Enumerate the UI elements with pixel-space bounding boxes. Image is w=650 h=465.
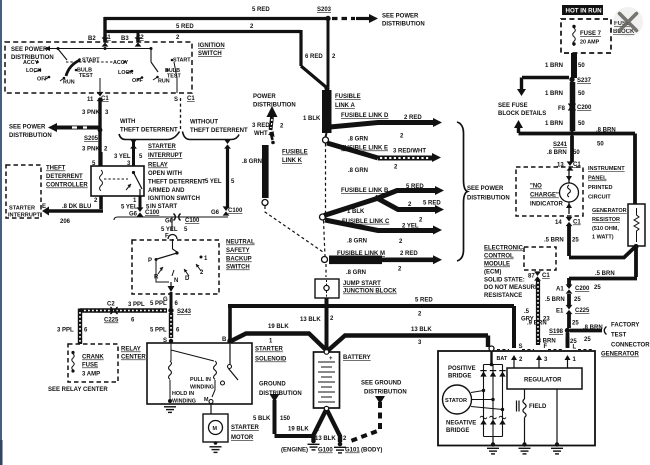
wire .8 BRN to L [566,333,570,347]
svg-text:CENTER: CENTER [121,355,146,361]
svg-text:THEFT DETERRENT: THEFT DETERRENT [148,180,206,186]
svg-text:(ECM): (ECM) [484,270,501,276]
svg-text:.5 BRN: .5 BRN [545,297,565,303]
svg-text:SEE FUSE: SEE FUSE [498,103,528,109]
svg-text:S243: S243 [177,309,192,315]
svg-text:TEST: TEST [611,333,627,339]
svg-text:C1: C1 [573,220,581,226]
svg-text:FUSE 7: FUSE 7 [580,31,602,37]
svg-text:"NO: "NO [530,184,542,190]
svg-text:REGULATOR: REGULATOR [524,378,562,384]
svg-text:CIRCUIT: CIRCUIT [588,195,611,201]
wire .5 BRN [567,294,571,306]
svg-text:CRANK: CRANK [82,355,104,361]
svg-text:50: 50 [597,142,604,148]
stator leads [471,391,503,410]
svg-text:3 RED/: 3 RED/ [252,123,272,129]
svg-text:L: L [573,345,577,351]
svg-text:FIELD: FIELD [529,404,547,410]
svg-text:3 RED/WHT: 3 RED/WHT [393,149,426,155]
dashed ground wire [348,402,380,442]
terminal BAT [489,346,494,351]
svg-text:S: S [519,344,523,350]
svg-text:RESISTANCE: RESISTANCE [484,293,522,299]
dashed wire from S C1 [180,98,182,131]
ECM dashed box [524,247,556,270]
wire .8 BRN to factory test connector [570,329,602,333]
svg-text:POSITIVE: POSITIVE [448,366,476,372]
svg-text:25: 25 [594,285,601,291]
svg-text:TEST: TEST [167,74,181,80]
svg-text:3 YEL: 3 YEL [114,154,131,160]
svg-text:G101: G101 [345,448,360,454]
svg-text:C100: C100 [145,210,160,216]
svg-text:STATOR: STATOR [445,398,467,404]
svg-text:14: 14 [555,220,562,226]
generator resistor [628,204,645,246]
svg-text:THEFT: THEFT [46,166,66,172]
svg-text:25: 25 [572,321,579,327]
contact R [158,267,163,274]
wire .9 BRN [567,313,571,328]
svg-text:BLOCK: BLOCK [613,29,635,35]
svg-text:+: + [329,356,333,362]
svg-text:5 BLK: 5 BLK [253,416,271,422]
svg-text:13 BLK: 13 BLK [315,436,336,442]
svg-text:G6: G6 [211,210,220,216]
svg-text:LINK K: LINK K [282,158,303,164]
wire .5 BRN down [567,225,571,256]
svg-text:RELAY: RELAY [121,347,141,353]
contact D [184,269,189,276]
svg-text:50: 50 [573,150,580,156]
positive diodes [480,371,486,377]
left position contacts [36,61,39,64]
wire 3 YEL into relay terminal 3 [132,140,135,166]
node S205 [98,128,103,133]
svg-text:C100: C100 [185,218,200,224]
wire G drop [170,292,173,308]
wire 6 RED drop from S203 [327,19,330,87]
svg-text:DISTRIBUTION: DISTRIBUTION [467,196,510,202]
svg-text:OPEN WITH: OPEN WITH [148,171,182,177]
svg-text:.8 GRN: .8 GRN [346,270,366,276]
wire regulator to field [524,389,526,399]
dashed link bus [324,144,327,278]
wire 13 BLK battery to generator [328,336,488,351]
svg-text:RESISTOR: RESISTOR [592,217,620,223]
svg-text:25: 25 [584,337,591,343]
svg-text:FACTORY: FACTORY [611,323,639,329]
svg-text:.8 DK BLU: .8 DK BLU [62,204,91,210]
wire drop to ignition B3 C2 [137,32,140,43]
svg-text:IGNITION SWITCH: IGNITION SWITCH [148,196,200,202]
svg-text:CHARGE": CHARGE" [530,193,559,199]
brace see power distribution [457,122,468,261]
node S237 [569,77,574,82]
svg-text:PANEL: PANEL [588,176,607,182]
svg-text:DISTRIBUTION: DISTRIBUTION [364,390,407,396]
starter motor [203,414,228,442]
svg-text:13 BLK: 13 BLK [411,327,432,333]
svg-text:1 BLK: 1 BLK [303,116,321,122]
connector F8 C200 [568,104,575,111]
svg-text:F: F [544,344,548,350]
svg-text:M: M [204,397,209,403]
svg-text:1 BRN: 1 BRN [545,91,563,97]
svg-text:1 WATT): 1 WATT) [592,235,614,241]
svg-text:RUN: RUN [63,80,75,86]
svg-text:19 BLK: 19 BLK [288,427,309,433]
svg-text:3 AMP: 3 AMP [82,372,100,378]
svg-text:CONNECTOR: CONNECTOR [611,343,650,349]
wire 1 BRN fuse to S237 [571,53,577,78]
svg-text:STARTER: STARTER [255,347,284,353]
ground generator 1 [491,442,495,446]
svg-text:13 BLK: 13 BLK [300,317,321,323]
wire 5 BLK [275,400,313,436]
svg-text:206: 206 [60,219,71,225]
wire field to ground [524,418,526,445]
switch wiper left [58,49,67,60]
node S243 [168,308,173,313]
starter interrupt relay box [91,166,144,196]
wire 1 BRN S237 to C200 [570,82,576,131]
svg-text:5 RED: 5 RED [423,201,441,207]
svg-text:BAT: BAT [497,356,508,362]
svg-text:2 RED: 2 RED [404,115,422,121]
svg-text:2 RED: 2 RED [400,251,418,257]
svg-text:DISTRIBUTION: DISTRIBUTION [259,391,302,397]
no charge indicator dashed box [516,167,583,216]
svg-text:25: 25 [572,238,579,244]
svg-text:G100: G100 [318,448,333,454]
svg-text:PULL IN: PULL IN [190,377,211,383]
wire rail to ground [492,437,494,445]
svg-text:SEE RELAY CENTER: SEE RELAY CENTER [48,387,108,393]
svg-text:OFF: OFF [37,77,48,83]
svg-text:.8 BRN: .8 BRN [547,150,567,156]
neutral safety backup switch dashed box [132,240,219,294]
svg-text:BRIDGE: BRIDGE [446,428,469,434]
svg-text:3 PNK: 3 PNK [82,147,100,153]
svg-text:SWITCH: SWITCH [198,51,222,57]
switch wiper [175,251,178,254]
svg-text:E1: E1 [556,309,564,315]
svg-text:S203: S203 [317,7,332,13]
connector G6 C100 left [137,207,144,216]
connector C2 [135,37,142,46]
svg-text:ACCY: ACCY [113,60,129,66]
svg-text:IGNITION: IGNITION [198,43,225,49]
mechanical link dashed [66,61,113,63]
svg-text:WINDING: WINDING [190,385,214,391]
wire 5 RED corner into B [228,306,232,340]
crank fuse symbol [71,351,74,354]
connector C2 C225 [110,307,117,314]
svg-text:ACCY: ACCY [23,60,39,66]
svg-text:THEFT DETERRENT: THEFT DETERRENT [120,128,178,134]
svg-text:.5 BRN: .5 BRN [544,238,564,244]
wire 13 BLK jump start to battery [325,298,329,350]
battery top terminal [324,350,329,355]
svg-text:PRINTED: PRINTED [588,185,613,191]
svg-text:23: 23 [543,317,550,323]
wire .5 BRN return [569,246,637,279]
node S241 [569,131,574,136]
wire to 11 C1 exit [100,62,177,93]
svg-text:SEE POWER: SEE POWER [382,14,419,20]
wire M to motor [210,403,212,414]
dashed terminal strip [497,349,592,351]
svg-text:SWITCH: SWITCH [226,265,250,271]
wire dashed to see-power arrow [332,17,355,20]
wire 19 BLK solenoid to battery [231,334,326,351]
svg-text:SEE POWER: SEE POWER [467,186,504,192]
wire 13 BLK battery to G101 [327,410,340,442]
svg-text:GENERATOR: GENERATOR [601,352,639,358]
svg-text:87: 87 [528,274,535,280]
svg-text:TEST: TEST [79,73,93,79]
wire drop to F [171,217,173,231]
node S203 [325,16,330,21]
field winding [517,401,520,412]
svg-text:.5: .5 [524,309,530,315]
svg-text:E: E [42,204,46,210]
ground G100 [311,439,316,444]
svg-text:LINK A: LINK A [335,103,355,109]
svg-text:CONTROL: CONTROL [484,254,514,260]
up arrow to brn line [514,120,523,128]
svg-text:C200: C200 [575,286,590,292]
svg-text:NEGATIVE: NEGATIVE [446,421,476,427]
svg-text:5 YEL: 5 YEL [161,227,178,233]
starter motor ground [214,441,218,445]
svg-text:STARTER: STARTER [148,144,177,150]
relay terminal 5 stub [99,152,102,166]
svg-text:.8 GRN: .8 GRN [347,239,367,245]
svg-text:1 BLK: 1 BLK [347,209,365,215]
svg-text:20 AMP: 20 AMP [580,40,600,46]
svg-text:C100: C100 [228,208,243,214]
svg-text:GRY: GRY [521,317,534,323]
wire 5 RED second feed [104,30,327,88]
svg-text:A1: A1 [556,287,564,293]
svg-text:POWER: POWER [253,94,276,100]
svg-text:FUSIBLE LINK D: FUSIBLE LINK D [341,113,389,119]
wire 3 PPL striped vertical [78,309,82,345]
svg-text:DISTRIBUTION: DISTRIBUTION [382,22,425,28]
svg-text:.8 GRN: .8 GRN [348,137,368,143]
svg-text:S205: S205 [84,136,99,142]
svg-text:SOLENOID: SOLENOID [255,357,287,363]
indicator lamp [560,183,579,202]
svg-text:50: 50 [578,63,585,69]
svg-text:ELECTRONIC: ELECTRONIC [484,246,524,252]
svg-text:FUSIBLE LINK B: FUSIBLE LINK B [341,188,389,194]
svg-text:P: P [148,258,152,264]
svg-text:SEE POWER: SEE POWER [9,125,46,131]
svg-text:FUSE: FUSE [82,363,98,369]
svg-text:INTERRUPT: INTERRUPT [8,213,41,219]
svg-text:C2: C2 [107,302,115,308]
svg-text:START: START [82,58,100,64]
wire branch to see fuse block details [522,78,570,90]
svg-text:STARTER: STARTER [9,206,35,212]
svg-text:GROUND: GROUND [259,382,286,388]
connector G6 C100 center [173,214,180,221]
svg-text:THEFT DETERRENT: THEFT DETERRENT [190,128,248,134]
svg-text:50: 50 [578,91,585,97]
node resistor bottom [633,244,638,249]
solenoid contact [229,344,231,364]
svg-text:S241: S241 [553,142,568,148]
svg-text:C1: C1 [187,96,195,102]
ground generator 2 [522,442,526,446]
starter solenoid box [147,343,252,404]
relay coil [100,170,103,191]
wire exit to G [170,282,172,286]
svg-text:GENERATOR: GENERATOR [592,208,627,214]
svg-text:BRIDGE: BRIDGE [448,374,471,380]
svg-text:1 BRN: 1 BRN [545,121,563,127]
wire 5 PPL striped to S [169,313,173,338]
diode rails [484,365,503,437]
node bat rail [490,363,494,367]
wire 5 RED main bar [228,306,514,348]
svg-text:WITHOUT: WITHOUT [190,120,218,126]
svg-text:3 PNK: 3 PNK [82,110,100,116]
jump start junction block [315,279,339,298]
svg-text:BATTERY: BATTERY [343,355,371,361]
svg-text:D: D [185,276,190,282]
svg-text:LOCK: LOCK [118,70,133,76]
svg-text:5 RED: 5 RED [252,7,270,13]
svg-text:WITH: WITH [120,119,135,125]
svg-text:19 BLK: 19 BLK [268,324,289,330]
solenoid coil ground [169,380,171,399]
wire 3 PPL striped horizontal [80,308,167,312]
svg-text:BACKUP: BACKUP [226,257,252,263]
svg-text:B2: B2 [88,36,96,42]
svg-text:JUNCTION BLOCK: JUNCTION BLOCK [343,289,397,295]
svg-text:2 YEL: 2 YEL [402,224,419,230]
svg-text:FUSIBLE: FUSIBLE [335,94,361,100]
svg-text:.8 BRN: .8 BRN [596,128,616,134]
close icon X [620,14,637,31]
contact N [172,270,174,276]
wire .8 BRN to indicator [570,136,574,162]
svg-text:HOLD IN: HOLD IN [172,391,194,397]
svg-text:BLOCK DETAILS: BLOCK DETAILS [498,111,546,117]
wire 5 RED top feed to S203 [104,17,326,20]
svg-text:STARTER: STARTER [231,425,260,431]
svg-text:5 YEL: 5 YEL [205,179,222,185]
svg-text:C1: C1 [542,273,550,279]
svg-text:MODULE: MODULE [484,262,510,268]
dashed wire from link K [265,206,323,252]
svg-text:N: N [174,278,178,284]
svg-text:DISTRIBUTION: DISTRIBUTION [9,133,52,139]
svg-text:.8 GRN: .8 GRN [348,168,368,174]
battery bottom terminal [324,406,328,410]
svg-text:1 BRN: 1 BRN [545,63,563,69]
svg-text:5 PPL: 5 PPL [150,328,167,334]
wire .8 BRN long line to resistor [519,134,636,205]
svg-text:5 RED: 5 RED [406,184,424,190]
contact 1 [200,256,203,259]
svg-text:INDICATOR: INDICATOR [530,202,563,208]
svg-text:.5 BRN: .5 BRN [595,271,615,277]
svg-text:RELAY: RELAY [148,163,168,169]
svg-text:DISTRIBUTION: DISTRIBUTION [253,103,296,109]
svg-text:START: START [173,58,191,64]
svg-text:JUMP START: JUMP START [343,281,381,287]
wire regulator right to ground [556,389,558,444]
svg-text:INSTRUMENT: INSTRUMENT [588,166,625,172]
wire .5 GRY to F [536,280,540,345]
wire link line [114,217,228,220]
svg-text:NEUTRAL: NEUTRAL [226,240,255,246]
hold-in winding coil [169,361,172,379]
svg-text:50: 50 [578,121,585,127]
wire F into switch [173,239,178,252]
svg-text:.8 BRN: .8 BRN [583,325,603,331]
ground G101 [338,442,343,447]
wire indicator to resistor bottom [569,247,635,258]
svg-text:DO NOT MEASURE: DO NOT MEASURE [484,285,539,291]
svg-text:WINDING: WINDING [172,399,196,405]
regulator box [507,368,582,389]
svg-text:MOTOR: MOTOR [231,435,254,441]
svg-text:WHT: WHT [254,131,268,137]
svg-text:(ENGINE): (ENGINE) [281,448,308,454]
svg-text:25: 25 [574,297,581,303]
ignition switch dashed box [5,42,192,93]
svg-text:S: S [174,97,178,103]
svg-text:C225: C225 [104,318,119,324]
negative diodes [480,416,506,418]
svg-text:6 RED: 6 RED [305,54,323,60]
svg-text:SEE GROUND: SEE GROUND [361,381,402,387]
window frame left edge [0,0,2,465]
wire drop to A1 [567,278,571,287]
relay mechanical link [104,178,128,180]
svg-text:5 RED: 5 RED [176,24,194,30]
svg-text:B3: B3 [121,36,129,42]
svg-text:HOT IN RUN: HOT IN RUN [566,8,603,15]
svg-text:C200: C200 [577,105,592,111]
close icon halo [613,7,643,37]
svg-text:M: M [213,426,218,432]
wire 5 YEL right branch [226,147,229,208]
wire P to N link [156,261,169,283]
wire common rail in switch [50,48,151,50]
svg-text:SOLID STATE:: SOLID STATE: [484,278,525,284]
svg-text:SAFETY: SAFETY [226,248,250,254]
hot in run tag [562,5,603,15]
svg-text:OFF: OFF [132,78,143,84]
svg-text:S198: S198 [549,329,564,335]
fusible link A [322,90,332,133]
wire 3 PNK main drop [98,98,101,166]
stator [443,385,472,414]
fuse symbol [572,25,575,28]
generator box [438,351,595,446]
svg-text:(BODY): (BODY) [361,448,382,454]
svg-text:(510 OHM,: (510 OHM, [592,226,619,232]
svg-text:C225: C225 [575,308,590,314]
